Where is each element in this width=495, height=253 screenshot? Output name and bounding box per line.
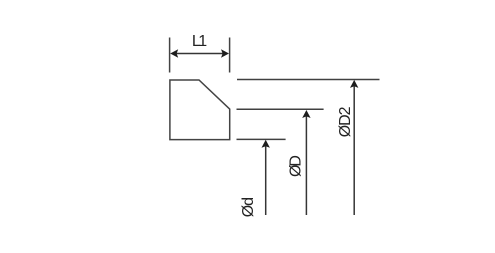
L1 arrowhead right [221,49,229,57]
OD2 dimension line [237,79,380,81]
seal cross-section outline [170,80,230,140]
svg-text:Ød: Ød [240,197,257,217]
L1 extension line left [169,38,171,73]
L1 arrowhead left [170,49,178,57]
svg-text:ØD2: ØD2 [337,106,354,137]
L1 dimension line [174,53,225,55]
Od arrow [265,146,267,215]
svg-text:ØD: ØD [287,155,304,177]
OD dimension line [237,108,324,110]
OD arrow [305,116,307,215]
Od dimension line [237,138,286,140]
OD2 arrow [353,86,355,215]
L1 extension line right [229,38,231,73]
